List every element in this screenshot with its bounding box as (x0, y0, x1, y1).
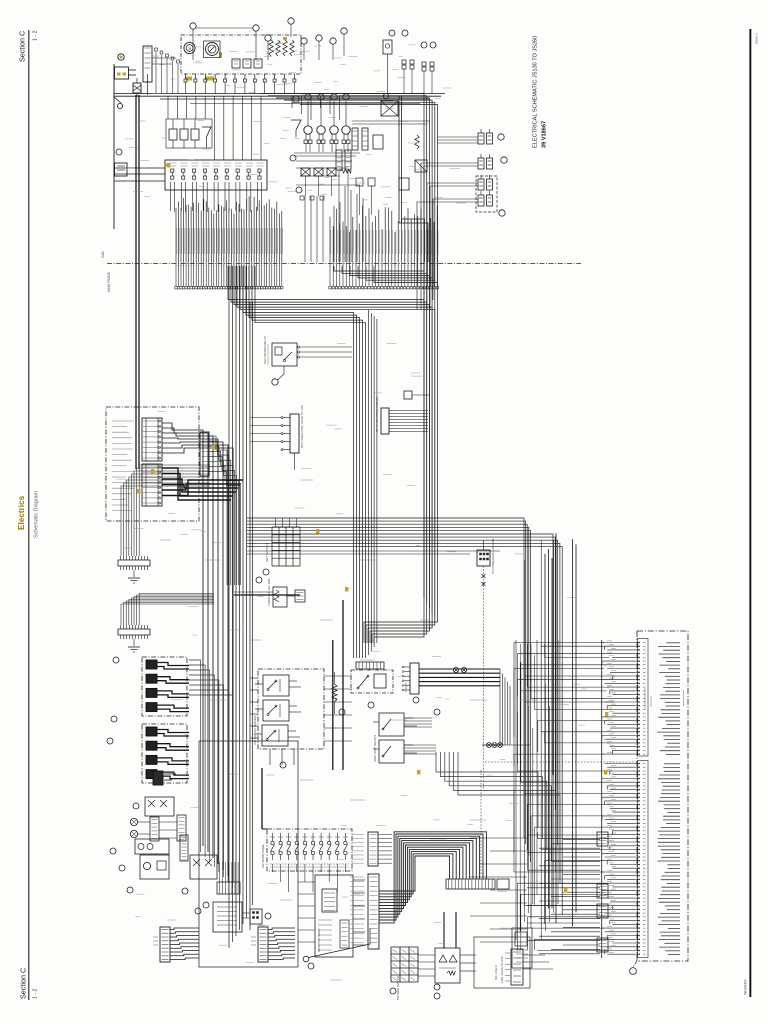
main frame loom heavy corners (436, 752, 560, 883)
svg-text:1 - 2: 1 - 2 (33, 989, 39, 999)
engine ECU outline (485, 631, 688, 961)
console ECU module (203, 902, 271, 932)
instrument cluster (gauges M/S, resistor bank) (181, 35, 301, 81)
svg-text:TACHO: TACHO (404, 682, 408, 692)
loop left-side verticals (369, 310, 377, 655)
Schematic Diagram label (34, 490, 40, 538)
junction box harness fan upper (thick) (162, 423, 233, 882)
console loom connector upper (352, 832, 392, 866)
tacho feed connector with heavy wires (402, 663, 510, 745)
inline connector pair C21 with callout (421, 154, 507, 310)
svg-text:1 - 2: 1 - 2 (33, 31, 39, 41)
relay stack output bundle down (189, 660, 233, 887)
svg-text:CAB: CAB (101, 251, 105, 258)
engine bay ladder wires and connectors (470, 832, 608, 954)
fuse box FB1 with nine fuses (114, 160, 267, 212)
cab console outline (199, 741, 298, 967)
wiper motor module (133, 797, 174, 816)
not-fitted option box (474, 937, 553, 988)
svg-text:DP TH/SB WIPER (NSS (1)): DP TH/SB WIPER (NSS (1)) (375, 397, 379, 432)
air-con extender relay box (250, 669, 324, 768)
interior lamps and connector strips (130, 815, 186, 841)
switch panel INC M/SPR (261, 829, 352, 892)
instrument cluster connector feet (184, 74, 296, 94)
starter relay and inline components mid-top (352, 93, 430, 190)
column switch module (180, 835, 217, 914)
harness comb connector C8 with fan (200, 432, 240, 585)
svg-text:Section C: Section C (19, 968, 28, 999)
doc number note (744, 979, 748, 995)
svg-text:39 V18667: 39 V18667 (542, 121, 548, 148)
floor harness comb connector (446, 879, 509, 889)
ECU feeder mesh (514, 540, 614, 951)
flasher / horn relay group (166, 119, 212, 148)
svg-text:Schematic Diagram: Schematic Diagram (34, 490, 40, 538)
ECU pin stub wires (602, 641, 635, 954)
Electrics tab label (17, 495, 26, 530)
lighting relay stack 2 (107, 724, 189, 783)
svg-text:INC M/SPR PANEL: INC M/SPR PANEL (261, 843, 265, 868)
console loom connector lower (350, 874, 379, 949)
lower engine module (512, 928, 532, 968)
shutdown relay with callout (263, 336, 352, 385)
wiper intermittent connector (375, 391, 430, 434)
wire bundle 2 main-frame harness with wire number labels (329, 206, 439, 289)
bulkhead triple connector marks (324, 676, 530, 754)
bus staircase group B bundle2 to loop (334, 266, 438, 283)
blower resistor and heavy feed wires (332, 600, 345, 770)
svg-text:SIDE LIGHT RELAYS: SIDE LIGHT RELAYS (373, 735, 377, 762)
central vertical trunk harness (229, 266, 253, 948)
svg-text:STD PANEL/EXC CAN LINK: STD PANEL/EXC CAN LINK (491, 538, 495, 574)
header text Section C top-left (18, 31, 27, 62)
svg-text:BLOWER SWITCH: BLOWER SWITCH (396, 976, 400, 1000)
optional connector group dashed box (417, 175, 505, 310)
misc small label marks (116, 42, 587, 980)
yellow highlight marks (137, 163, 608, 893)
blower relay module (418, 912, 476, 999)
mid-page long feed wires to engine harness (247, 518, 562, 915)
flasher unit and inline connectors top right (383, 30, 436, 262)
console connector strip (217, 862, 240, 894)
cab junction connector blocks (142, 418, 162, 506)
inline connector pair C20 with callout (438, 129, 504, 144)
cab junction legend text rows (112, 421, 134, 511)
svg-text:Electrics: Electrics (17, 495, 26, 530)
earth comb connector E1 with ground (118, 465, 210, 583)
svg-text:KEY SWITCH: KEY SWITCH (265, 543, 269, 562)
footer text Section C bottom-left (19, 968, 28, 999)
svg-text:Section C: Section C (18, 31, 27, 62)
right page bar (749, 29, 751, 997)
console earth lead diagonal (303, 928, 370, 962)
engine stop relay dashed box (351, 662, 393, 708)
earth comb connector E2 with ground (118, 594, 214, 653)
battery BAT1 (143, 46, 179, 95)
svg-text:FOR JS130 TO 260: FOR JS130 TO 260 (500, 956, 504, 983)
EMS monitor unit (298, 875, 365, 969)
floor harness heavy staircase bundle (379, 832, 486, 923)
CAN link connector with twisted pair marks (477, 538, 495, 790)
connector not-used-for-JS range (250, 405, 304, 470)
svg-text:9803/6430: 9803/6430 (744, 979, 748, 995)
title doc code 39 V18667 (542, 121, 548, 148)
ECU pin name labels (657, 643, 680, 955)
svg-text:MAIN FRAME: MAIN FRAME (107, 272, 111, 292)
screened cable dotted run (480, 770, 482, 876)
junction box harness fan lower (thick) (162, 468, 244, 500)
left sidebar rule (28, 30, 30, 1000)
header text 1-2 top-left (33, 31, 39, 41)
ECU pin strip (635, 642, 646, 955)
blower switch grid (390, 947, 418, 1000)
title ELECTRICAL SCHEMATIC (533, 36, 539, 148)
engine harness heavy trunk (545, 533, 576, 926)
lighting relay stack 1 (111, 657, 189, 722)
side light relays (373, 713, 417, 763)
wire bundle 1 cab harness with wire number labels (175, 196, 283, 289)
washer pumps (110, 839, 169, 893)
svg-text:NOT USED FOR JS130 TO 260: NOT USED FOR JS130 TO 260 (300, 405, 304, 448)
main loop trunk wires right side (260, 94, 438, 644)
Issue 1 note (755, 33, 759, 44)
separator crossing ticks (176, 262, 437, 266)
key switch matrix (263, 518, 300, 575)
separator dash-dot CAB / MAIN FRAME (101, 251, 581, 292)
heavy feed to switch panel (262, 768, 267, 829)
bus staircase group A bundle1 to loop (228, 266, 435, 658)
battery isolator B1 (133, 78, 141, 96)
svg-text:SHUTDOWN RELAY: SHUTDOWN RELAY (263, 336, 267, 364)
footer text 1-2 bottom-left (33, 989, 39, 999)
svg-text:ELECTRICAL SCHEMATIC JS130 TO: ELECTRICAL SCHEMATIC JS130 TO JS260 (533, 36, 539, 148)
throttle dial and heavy feed (234, 577, 305, 607)
main positive feed bus and twin battery feed wires (114, 94, 445, 470)
wiper relay (filled) (153, 771, 176, 785)
svg-text:M: M (188, 47, 192, 50)
diode pack and dropping resistor row (290, 150, 375, 262)
cab junction dash-dot box (106, 407, 199, 521)
bottom comb connector right (251, 927, 295, 962)
bottom comb connector left (153, 927, 199, 962)
svg-text:N/F USE D: N/F USE D (494, 964, 498, 980)
svg-text:MONITOR (EMS): MONITOR (EMS) (317, 929, 321, 952)
left boundary wire with isolator switch (114, 54, 136, 229)
ECU earth callout (630, 961, 637, 974)
svg-text:Issue 1: Issue 1 (755, 33, 759, 44)
circled item callouts top row (190, 18, 347, 60)
warning lamp group with connectors (291, 94, 360, 156)
svg-text:AIR CON EXTENDER: AIR CON EXTENDER (253, 714, 257, 745)
